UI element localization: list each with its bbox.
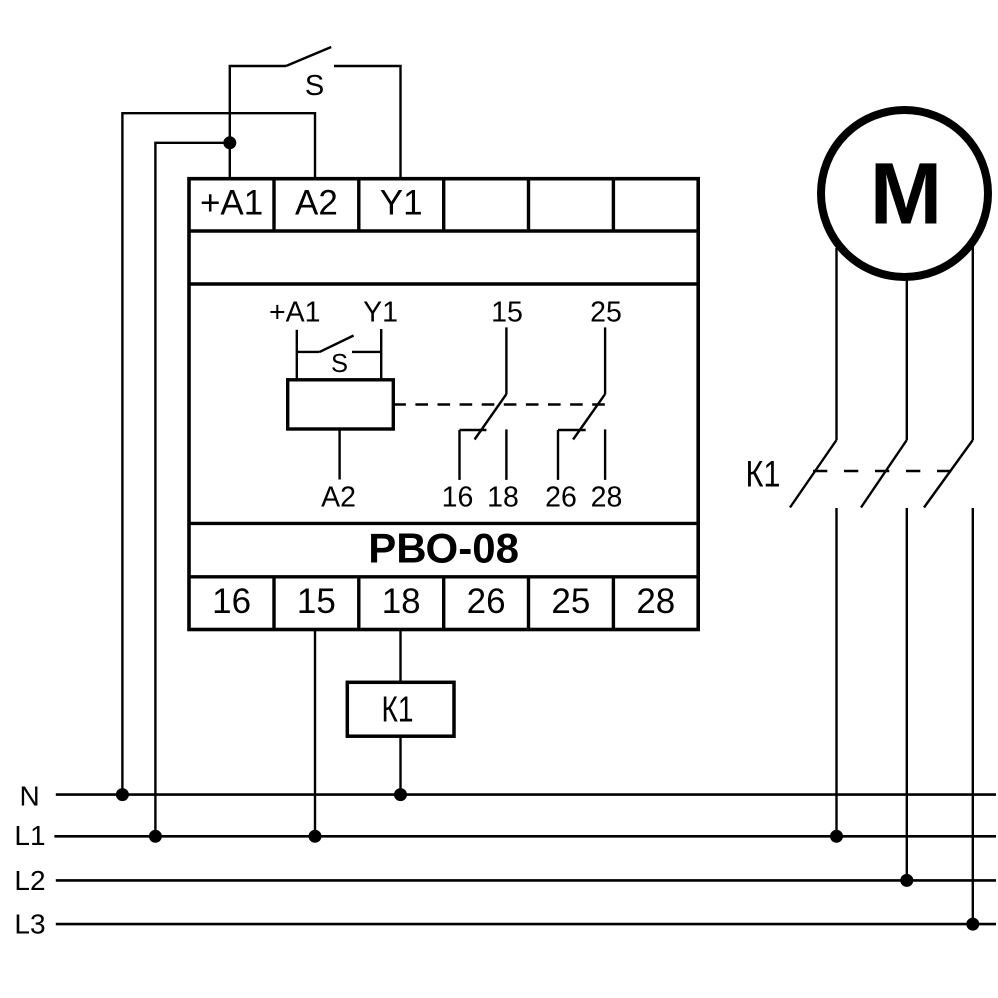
junction on L3 bus [966,918,979,931]
internal coil box [288,380,394,429]
svg-text:L1: L1 [14,820,45,851]
contactor K1 dashed actuation line [813,470,952,472]
bus L3 [56,923,996,926]
svg-text:25: 25 [590,296,622,328]
wire K1 coil down to N bus [399,736,401,794]
relay name band bottom line [189,575,698,578]
pin 18 wire [505,429,507,480]
svg-text:18: 18 [382,582,421,621]
internal switch S left lead [297,351,320,353]
bus N [56,793,996,796]
svg-text:25: 25 [551,582,590,621]
contactor K1 contact 2 blade [861,440,907,508]
motor M circle [821,110,988,277]
wire contact 1 down to L1 [835,508,837,836]
svg-text:28: 28 [591,482,623,514]
contactor K1 contact 1 blade [790,440,837,508]
svg-text:28: 28 [636,582,675,621]
svg-text:+A1: +A1 [269,296,321,328]
wire contact 3 down to L3 [972,508,974,924]
wire from A2 terminal up-left down to N bus [122,113,315,794]
motor phase wire 2 (to L2) [906,277,908,440]
svg-text:Y1: Y1 [380,184,423,223]
relay РВО-08 outer box [189,179,698,630]
wire +A1 terminal up to switch S left contact [230,66,286,180]
internal +A1 pin wire [296,330,298,380]
junction on L1 bus [830,830,843,843]
svg-text:РВО-08: РВО-08 [368,524,519,571]
junction node on +A1 vertical [223,136,236,149]
svg-text:Y1: Y1 [363,296,398,328]
svg-text:S: S [331,350,348,378]
wire switch S right contact down to Y1 terminal [334,66,401,180]
pin 26 wire [557,430,559,480]
top terminal dividers [274,179,613,231]
svg-text:N: N [19,781,39,812]
svg-text:A2: A2 [295,184,338,223]
pin 16 wire [458,430,460,480]
wire terminal 15 down to L1 bus [314,630,316,837]
junction on L1 bus [149,830,162,843]
junction on L2 bus [900,874,913,887]
svg-text:К1: К1 [746,453,781,494]
svg-text:15: 15 [297,582,336,621]
junction on L1 bus [309,830,322,843]
bottom terminal dividers [274,577,613,630]
internal switch S right lead [352,351,381,353]
wire contact 2 down to L2 [906,508,908,880]
internal A2 pin wire [338,429,340,480]
bus L2 [56,879,996,882]
motor phase wire 3 (to L3) [972,246,974,440]
junction on N bus [394,788,407,801]
internal Y1 pin wire [380,329,382,380]
bus L1 [54,835,996,838]
contact 25 common wire [604,327,606,394]
svg-text:L2: L2 [14,865,45,896]
relay top terminal row bottom line [189,229,698,232]
svg-text:M: M [870,145,942,242]
relay internal area bottom line [189,522,698,525]
contactor coil K1 box [347,682,454,736]
svg-text:К1: К1 [382,689,414,730]
junction on N bus [116,788,129,801]
svg-text:18: 18 [487,482,519,514]
switch S blade [286,47,331,66]
contact 15 common wire [505,327,507,394]
svg-text:+A1: +A1 [200,184,263,223]
internal dashed actuation line [393,403,610,405]
svg-text:15: 15 [491,296,523,328]
pin 26 tick [558,429,586,431]
internal switch S blade [320,336,354,352]
svg-text:S: S [305,70,324,102]
motor phase wire 1 (to L1) [835,248,837,440]
svg-text:26: 26 [545,482,577,514]
relay upper band line [189,282,698,285]
wire from L1 bus up to junction on +A1 wire [155,143,229,837]
svg-text:A2: A2 [321,482,356,514]
svg-text:16: 16 [212,582,251,621]
svg-text:L3: L3 [14,909,45,940]
contactor K1 contact 3 blade [924,440,973,508]
svg-text:26: 26 [467,582,506,621]
contact 25 blade [573,394,605,439]
wire terminal 18 down to K1 coil [399,630,401,683]
pin 16 tick [460,429,487,431]
pin 28 wire [604,429,606,480]
svg-text:16: 16 [442,482,474,514]
contact 15 blade [475,394,507,439]
